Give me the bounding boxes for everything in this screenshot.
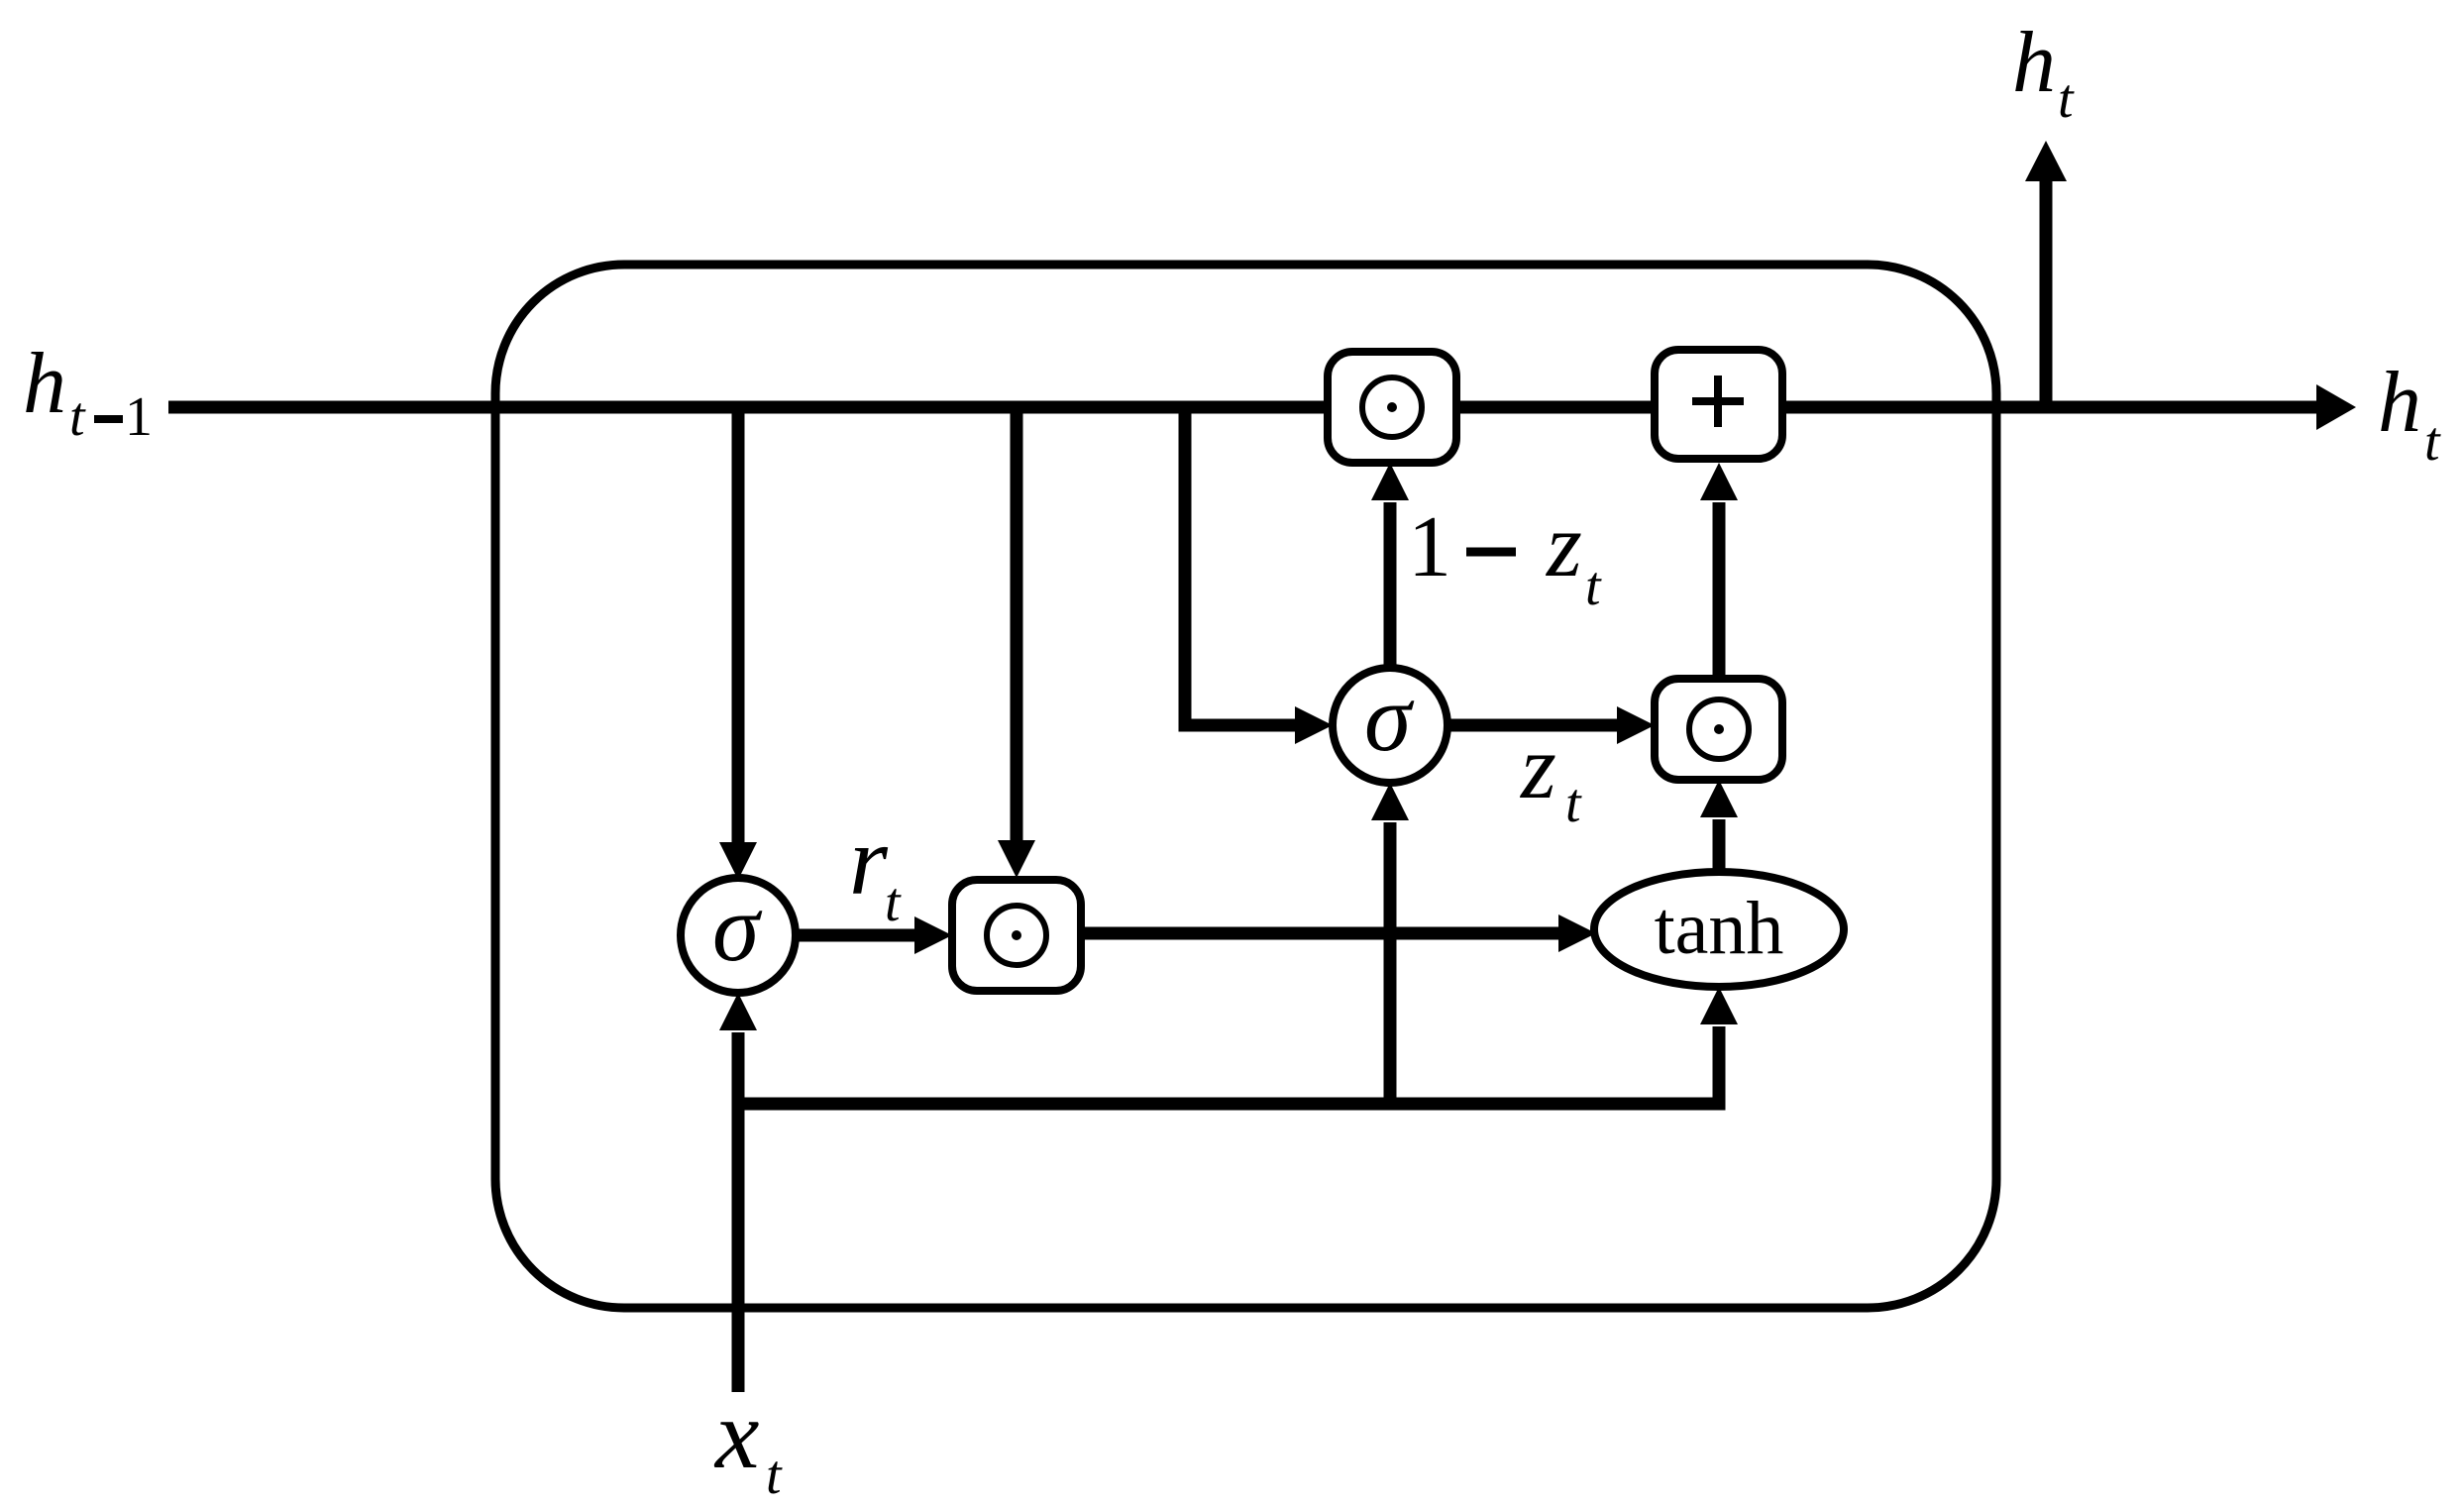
svg-text:x: x [713, 1379, 759, 1489]
svg-text:t: t [2058, 68, 2075, 130]
svg-text:1: 1 [125, 386, 153, 448]
svg-text:tanh: tanh [1655, 887, 1784, 970]
svg-text:1: 1 [1408, 499, 1451, 595]
svg-text:t: t [885, 872, 902, 933]
svg-text:σ: σ [712, 875, 763, 981]
svg-text:t: t [1585, 556, 1602, 617]
svg-text:r: r [849, 806, 889, 915]
svg-text:t: t [766, 1445, 783, 1505]
svg-text:h: h [2012, 15, 2056, 111]
svg-text:σ: σ [1364, 665, 1415, 771]
svg-text:h: h [23, 336, 66, 432]
svg-text:t: t [1565, 773, 1582, 834]
svg-text:h: h [2378, 355, 2421, 451]
svg-text:z: z [1545, 494, 1582, 595]
svg-text:t: t [69, 386, 86, 448]
svg-text:z: z [1519, 716, 1556, 817]
svg-text:t: t [2424, 411, 2441, 473]
